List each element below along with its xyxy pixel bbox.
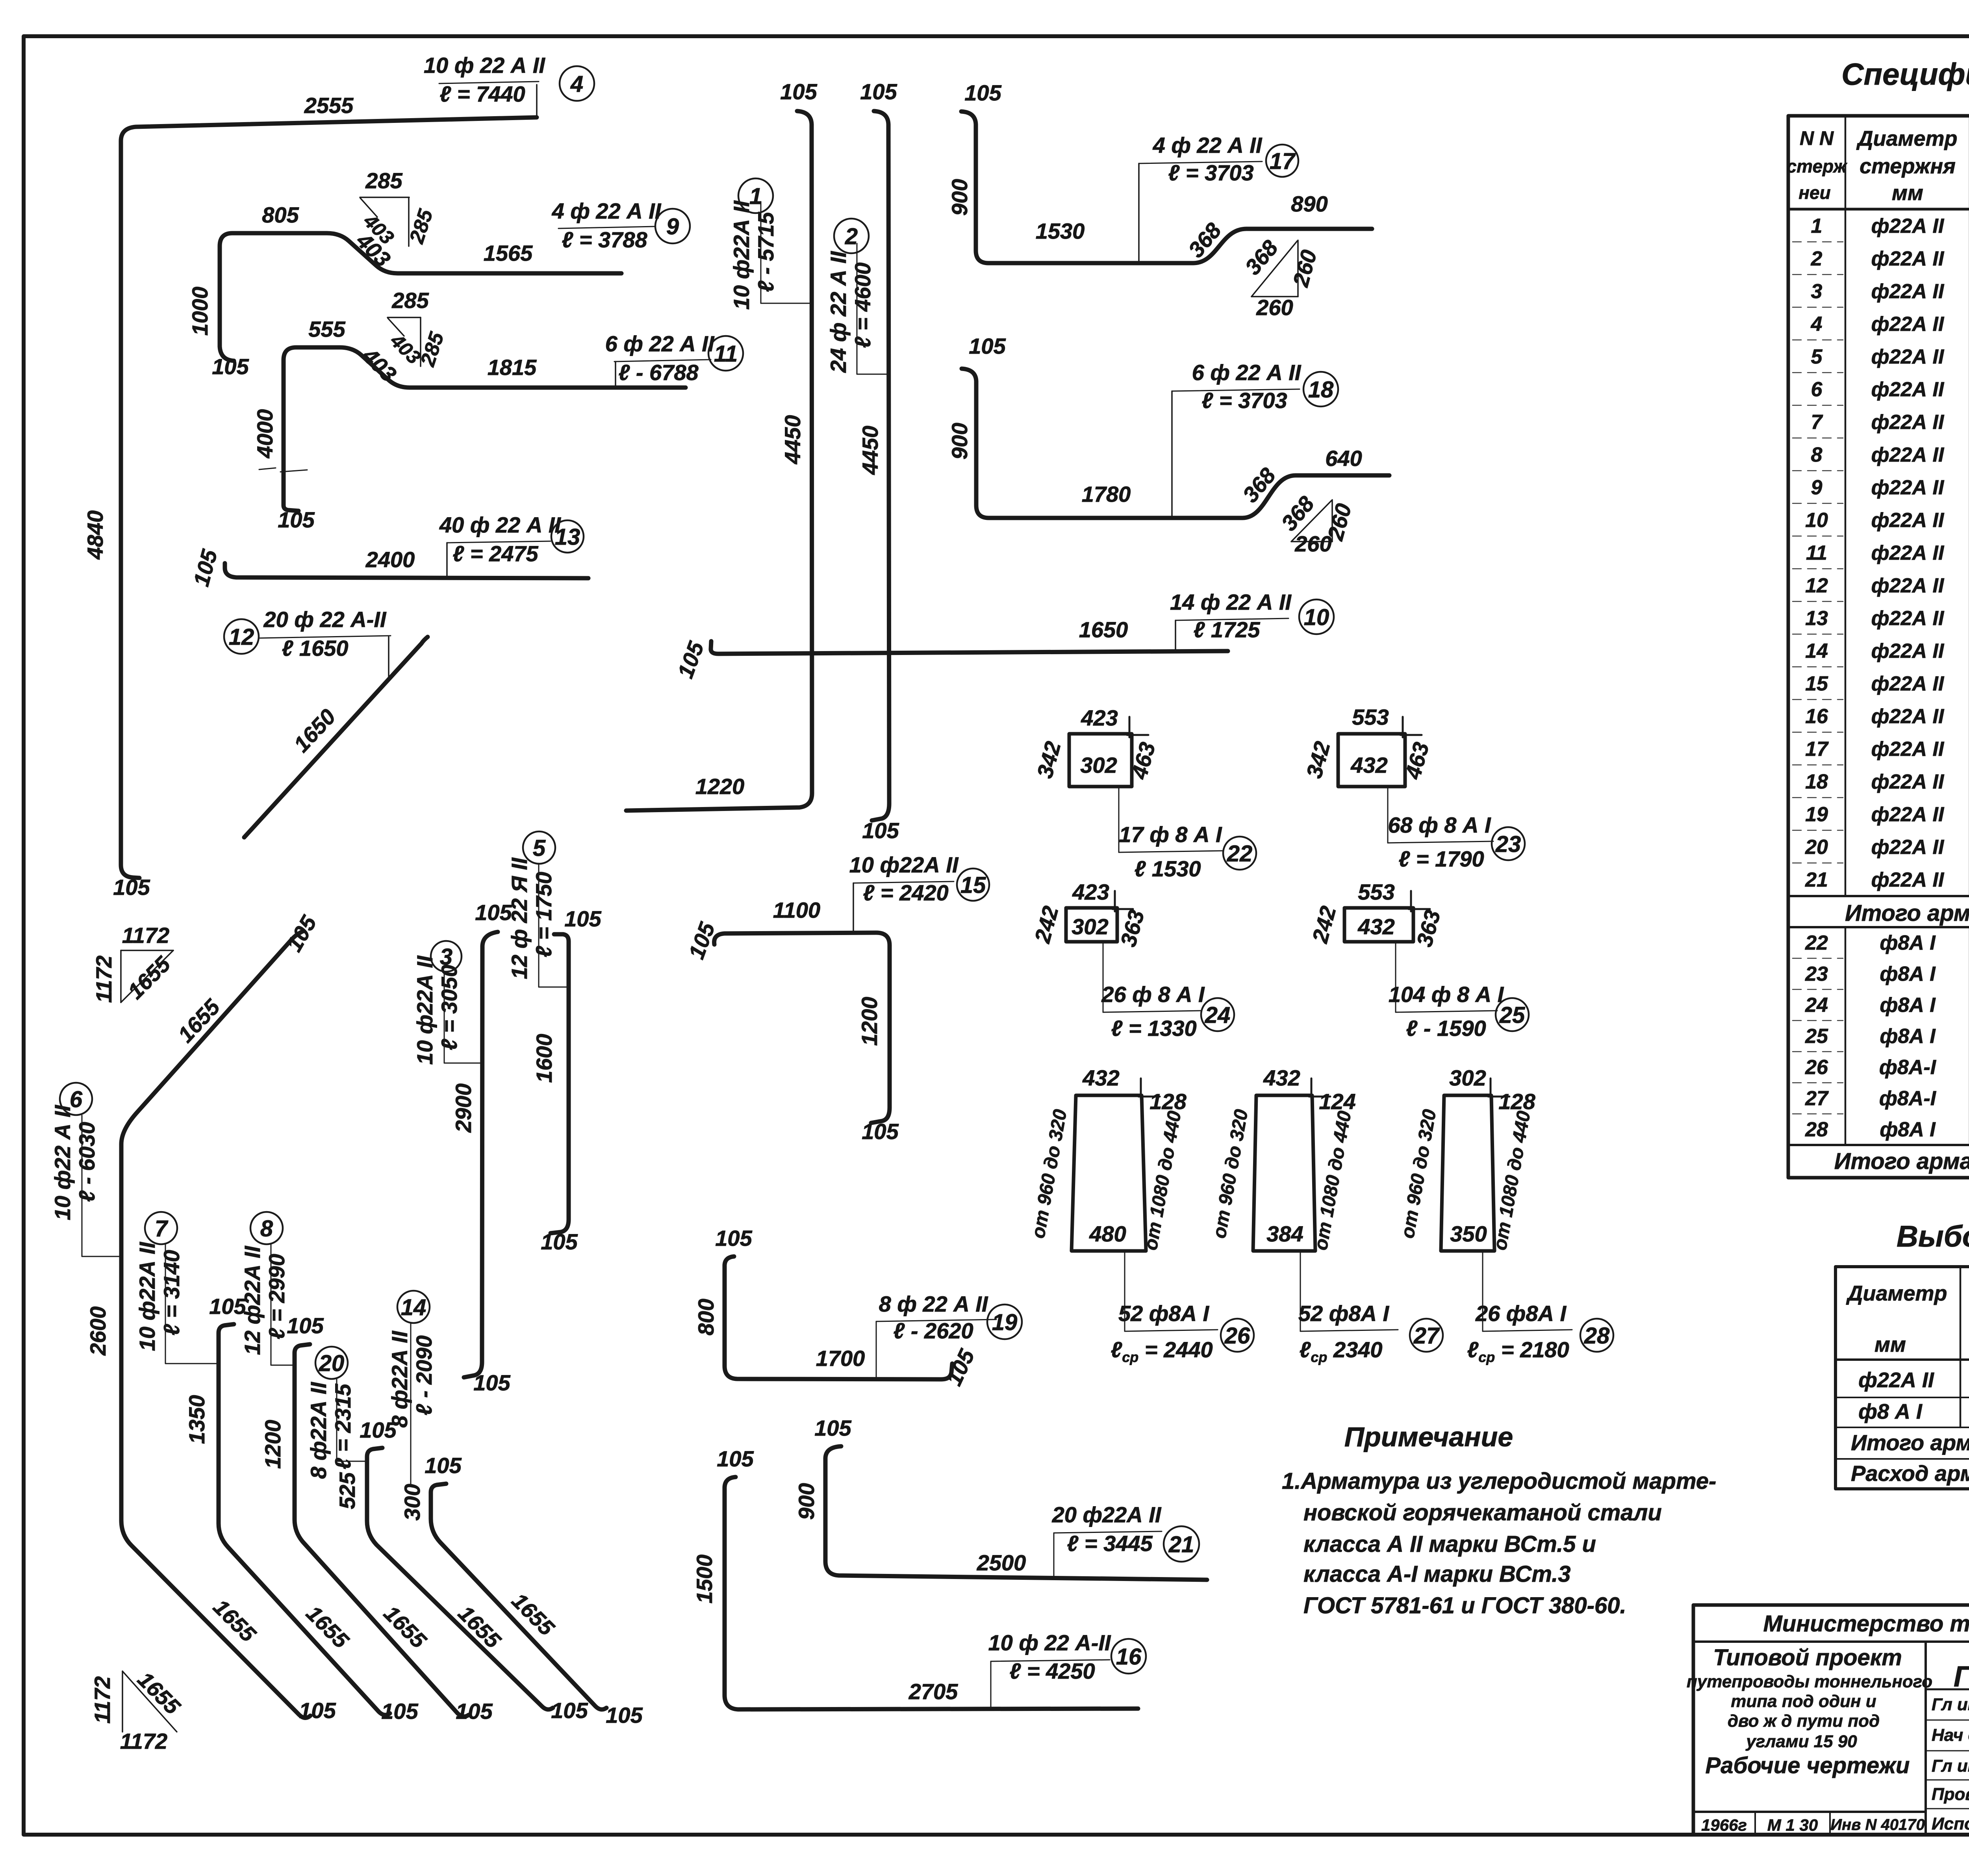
svg-text:Гл инж пр: Гл инж пр <box>1932 1756 1969 1776</box>
svg-text:10 ф 22 А II: 10 ф 22 А II <box>424 53 545 78</box>
svg-text:Итого арматуры: Итого арматуры <box>1851 1430 1969 1455</box>
svg-text:555: 555 <box>308 317 345 341</box>
svg-text:мм: мм <box>1874 1333 1906 1356</box>
svg-text:900: 900 <box>947 423 972 459</box>
bar 18 (6 ф22А II, l=3703) <box>947 334 1389 518</box>
svg-text:ф8А I: ф8А I <box>1880 1025 1936 1048</box>
svg-text:7: 7 <box>1811 411 1823 434</box>
bar 19 (8 ф22А II, l=2620) <box>693 1226 996 1389</box>
svg-text:525: 525 <box>335 1472 360 1509</box>
svg-text:ф22А II: ф22А II <box>1871 509 1945 532</box>
svg-text:мм: мм <box>1892 181 1923 205</box>
svg-text:ф8А I: ф8А I <box>1880 963 1936 985</box>
svg-text:1: 1 <box>1811 215 1823 238</box>
svg-text:1172: 1172 <box>122 923 169 948</box>
svg-text:16: 16 <box>1116 1644 1142 1670</box>
stirrup 28 (26 ф8А I, lср=2180) tall loop 302/350 <box>1397 1065 1572 1365</box>
svg-text:дво ж д пути под: дво ж д пути под <box>1728 1711 1880 1731</box>
svg-text:Итого арматуры Ф 22 А-II: Итого арматуры Ф 22 А-II <box>1845 900 1969 926</box>
svg-text:ℓ - 1590: ℓ - 1590 <box>1406 1016 1486 1041</box>
svg-text:ℓ = 3445: ℓ = 3445 <box>1067 1531 1153 1556</box>
svg-text:Диаметр: Диаметр <box>1846 1282 1947 1305</box>
spec table header <box>1787 126 1969 205</box>
svg-text:6 ф 22 А II: 6 ф 22 А II <box>1192 360 1302 385</box>
svg-text:ф8 А I: ф8 А I <box>1858 1400 1923 1423</box>
svg-text:2705: 2705 <box>908 1679 958 1704</box>
title block frame <box>1693 1605 1969 1835</box>
bend dimension triangle 285/403/285 (bar 11) <box>386 288 449 369</box>
svg-text:ℓ 1650: ℓ 1650 <box>282 636 348 661</box>
bar 13 (40 ф22А II, l=2475) <box>189 512 588 589</box>
svg-text:25: 25 <box>1499 1002 1525 1028</box>
svg-text:ℓ = 4600: ℓ = 4600 <box>850 262 875 348</box>
svg-text:20: 20 <box>319 1351 345 1376</box>
bar 6 (10 ф22А II, l=6030) <box>50 911 336 1723</box>
callout circle 26 <box>1221 1319 1254 1352</box>
stirrup 23 (68 ф8А I, l=1790) rectangle 553x342 <box>1302 705 1493 871</box>
callout circle 23 <box>1492 827 1525 860</box>
svg-text:ф22А II: ф22А II <box>1871 247 1945 270</box>
svg-text:путепроводы тоннельного: путепроводы тоннельного <box>1687 1672 1932 1691</box>
svg-text:ℓ = 3703: ℓ = 3703 <box>1201 388 1287 413</box>
selection table title Выборка арматуры <box>1897 1220 1969 1253</box>
callout circle 17 <box>1266 145 1298 177</box>
bar 1 (10 ф22А II, l=5715) <box>626 79 818 811</box>
svg-text:23: 23 <box>1495 831 1521 857</box>
selection table rows <box>1851 1368 1969 1486</box>
svg-text:ℓ = 3703: ℓ = 3703 <box>1168 160 1253 185</box>
svg-text:ф22А II: ф22А II <box>1871 313 1945 336</box>
svg-text:1100: 1100 <box>773 898 820 922</box>
svg-text:423: 423 <box>1072 880 1109 904</box>
svg-text:1172: 1172 <box>91 956 116 1003</box>
svg-text:15: 15 <box>1805 672 1828 695</box>
svg-text:553: 553 <box>1352 705 1389 729</box>
svg-text:ф22А II: ф22А II <box>1871 215 1945 238</box>
svg-text:10 ф22А II: 10 ф22А II <box>412 955 437 1065</box>
spec table subtotal ф22А-II <box>1845 900 1969 926</box>
svg-text:Гипротрансмост: Гипротрансмост <box>1954 1660 1969 1693</box>
svg-text:10 ф 22 А-II: 10 ф 22 А-II <box>988 1630 1111 1655</box>
svg-text:2500: 2500 <box>977 1550 1026 1575</box>
svg-text:класса А II марки ВСт.5 и: класса А II марки ВСт.5 и <box>1303 1531 1596 1557</box>
svg-text:20: 20 <box>1805 836 1828 859</box>
svg-text:40 ф 22 А II: 40 ф 22 А II <box>439 512 561 537</box>
svg-text:10 ф22А II: 10 ф22А II <box>729 200 754 310</box>
svg-text:Исполнил: Исполнил <box>1932 1814 1969 1833</box>
svg-text:3: 3 <box>1811 280 1823 303</box>
svg-text:неи: неи <box>1798 182 1830 203</box>
svg-text:13: 13 <box>1805 607 1828 630</box>
svg-text:105: 105 <box>715 1226 752 1251</box>
svg-text:1220: 1220 <box>695 774 745 799</box>
svg-text:ℓ = 2475: ℓ = 2475 <box>452 541 538 566</box>
bar 5 (12 ф22А II, l=1750) <box>507 857 602 1254</box>
svg-text:ℓ = 7440: ℓ = 7440 <box>439 82 525 106</box>
svg-text:24: 24 <box>1205 1002 1231 1028</box>
svg-text:10 ф22А II: 10 ф22А II <box>135 1241 159 1351</box>
svg-text:ф22А II: ф22А II <box>1871 378 1945 401</box>
svg-text:ф22А II: ф22А II <box>1871 836 1945 859</box>
svg-text:ф22А II: ф22А II <box>1871 345 1945 368</box>
svg-text:432: 432 <box>1350 753 1387 777</box>
svg-text:ф8А-I: ф8А-I <box>1879 1056 1937 1079</box>
break marks on bar 11 vertical <box>259 468 276 469</box>
svg-text:ф22А II: ф22А II <box>1871 868 1945 891</box>
svg-text:ℓ = 1750: ℓ = 1750 <box>531 872 556 957</box>
svg-text:1172: 1172 <box>120 1729 167 1754</box>
svg-text:Выборка арматуры: Выборка арматуры <box>1897 1220 1969 1253</box>
svg-text:ф8А I: ф8А I <box>1880 1118 1936 1141</box>
svg-text:14: 14 <box>1805 640 1828 662</box>
svg-text:класса А-I марки ВСт.3: класса А-I марки ВСт.3 <box>1303 1561 1571 1587</box>
notes heading Примечание <box>1344 1421 1513 1452</box>
svg-text:1780: 1780 <box>1082 482 1131 507</box>
svg-text:302: 302 <box>1449 1065 1486 1090</box>
svg-text:21: 21 <box>1805 868 1828 891</box>
svg-text:105: 105 <box>780 79 817 104</box>
svg-text:10: 10 <box>1805 509 1828 532</box>
svg-text:1600: 1600 <box>532 1034 556 1083</box>
slope dimension triangle 368/260/260 (bar 17) <box>1240 235 1322 320</box>
svg-text:Диаметр: Диаметр <box>1856 127 1958 150</box>
stirrup 27 (52 ф8А I, lср=2340) tall loop 432/384 <box>1209 1065 1398 1365</box>
svg-text:13: 13 <box>555 524 580 550</box>
svg-text:Спецификация арматуры: Спецификация арматуры <box>1841 57 1969 91</box>
svg-text:8: 8 <box>260 1216 273 1241</box>
svg-text:Гл инж ПМ: Гл инж ПМ <box>1932 1695 1969 1714</box>
svg-text:1966г: 1966г <box>1701 1816 1747 1834</box>
svg-text:423: 423 <box>1081 705 1118 730</box>
svg-text:ф22А II: ф22А II <box>1871 738 1945 761</box>
slope dimension triangle 368/260/260 (bar 18) <box>1276 491 1356 556</box>
svg-text:ф22А II: ф22А II <box>1871 574 1945 597</box>
svg-text:26 ф 8 А I: 26 ф 8 А I <box>1101 982 1205 1007</box>
svg-text:1815: 1815 <box>488 355 537 380</box>
svg-text:ф22А II: ф22А II <box>1871 705 1945 728</box>
spec table rows 1-21 <box>1805 215 1969 891</box>
svg-text:1500: 1500 <box>692 1555 717 1604</box>
svg-text:5: 5 <box>533 835 546 861</box>
svg-text:12: 12 <box>229 624 254 650</box>
bar 2 (24 ф22А II, l=4600) <box>826 79 899 843</box>
svg-text:68 ф 8 А I: 68 ф 8 А I <box>1388 813 1491 837</box>
svg-text:350: 350 <box>1450 1221 1487 1246</box>
svg-text:Расход арматуры: Расход арматуры <box>1851 1461 1969 1486</box>
svg-text:6: 6 <box>70 1087 83 1112</box>
callout circle 19 <box>987 1304 1022 1339</box>
callout circle 16 <box>1111 1639 1146 1674</box>
svg-text:22: 22 <box>1227 841 1253 867</box>
svg-text:26 ф8А I: 26 ф8А I <box>1475 1301 1567 1326</box>
callout circle 22 <box>1223 837 1256 870</box>
svg-text:19: 19 <box>992 1310 1018 1335</box>
svg-text:800: 800 <box>693 1299 718 1335</box>
svg-text:26: 26 <box>1224 1323 1250 1349</box>
svg-text:52 ф8А I: 52 ф8А I <box>1298 1301 1390 1326</box>
svg-text:24: 24 <box>1805 994 1828 1017</box>
svg-text:ℓ - 6788: ℓ - 6788 <box>618 360 699 385</box>
spec table title Спецификация арматуры <box>1841 57 1969 91</box>
svg-text:384: 384 <box>1266 1221 1303 1246</box>
bar 10 (14 ф22А II, l=1725) <box>673 590 1292 681</box>
bar 12 (20 ф22А-II, l=1650) <box>244 607 428 837</box>
svg-text:260: 260 <box>1294 531 1331 556</box>
svg-text:1.Арматура из углеродистой мар: 1.Арматура из углеродистой марте- <box>1282 1468 1716 1494</box>
svg-text:805: 805 <box>262 202 299 227</box>
svg-text:432: 432 <box>1263 1065 1300 1090</box>
svg-text:стержня: стержня <box>1860 154 1956 178</box>
svg-text:ф22А II: ф22А II <box>1871 803 1945 826</box>
svg-text:ℓ = 3788: ℓ = 3788 <box>562 227 647 252</box>
svg-text:105: 105 <box>473 1370 510 1395</box>
title block: ministry header <box>1763 1611 1969 1637</box>
svg-text:ℓ = 3140: ℓ = 3140 <box>159 1250 184 1335</box>
svg-text:ф8А I: ф8А I <box>1880 994 1936 1017</box>
spec table subtotal ф8А I <box>1834 1149 1969 1174</box>
svg-text:ф8А-I: ф8А-I <box>1879 1087 1937 1110</box>
svg-text:ф22А II: ф22А II <box>1858 1368 1934 1392</box>
stirrup 26 (52 ф8А I, lср=2440) tall loop 432/480 <box>1028 1065 1218 1365</box>
svg-text:7: 7 <box>155 1216 169 1241</box>
svg-text:1000: 1000 <box>187 287 212 336</box>
svg-text:ℓ - 5715: ℓ - 5715 <box>753 212 778 292</box>
svg-text:285: 285 <box>365 168 402 193</box>
callout circle 2 <box>834 219 869 253</box>
callout circle 5 <box>523 831 555 864</box>
callout circle 27 <box>1410 1319 1443 1352</box>
svg-text:105: 105 <box>964 80 1001 105</box>
svg-text:10 ф22 А II: 10 ф22 А II <box>50 1104 75 1220</box>
callout circle 13 <box>551 520 584 553</box>
svg-text:25: 25 <box>1805 1025 1828 1048</box>
callout circle 25 <box>1496 998 1529 1031</box>
svg-text:ℓ = 3050: ℓ = 3050 <box>437 965 462 1050</box>
svg-text:ГОСТ 5781-61 и ГОСТ 380-60.: ГОСТ 5781-61 и ГОСТ 380-60. <box>1303 1593 1626 1618</box>
svg-text:17 ф 8 А I: 17 ф 8 А I <box>1119 822 1222 847</box>
svg-text:Министерство транспортного с: Министерство транспортного строительства… <box>1763 1611 1969 1637</box>
svg-text:типа под один и: типа под один и <box>1731 1692 1876 1711</box>
svg-text:105: 105 <box>551 1698 588 1723</box>
svg-text:ф8А I: ф8А I <box>1880 932 1936 954</box>
svg-text:105: 105 <box>299 1698 336 1723</box>
svg-text:Типовой проект: Типовой проект <box>1713 1645 1902 1670</box>
bar 16 (10 ф22А-II, l=4250) <box>692 1446 1138 1709</box>
svg-text:4: 4 <box>570 71 583 97</box>
svg-text:углами 15 90: углами 15 90 <box>1745 1732 1857 1751</box>
callout circle 10 <box>1299 599 1334 634</box>
svg-text:5: 5 <box>1811 345 1823 368</box>
bar 15 (10 ф22А II, l=2420) <box>684 852 959 1144</box>
svg-text:900: 900 <box>794 1483 819 1520</box>
svg-text:4 ф 22 А II: 4 ф 22 А II <box>1153 133 1263 158</box>
svg-text:105: 105 <box>969 334 1006 358</box>
svg-text:2600: 2600 <box>85 1306 110 1356</box>
svg-text:1565: 1565 <box>484 241 533 265</box>
callout circle 24 <box>1201 998 1234 1031</box>
svg-text:105: 105 <box>456 1699 493 1724</box>
svg-text:1172: 1172 <box>90 1676 115 1724</box>
svg-text:105: 105 <box>212 354 249 379</box>
svg-text:4: 4 <box>1811 313 1823 336</box>
title block: bottom-left cells <box>1701 1816 1925 1834</box>
svg-text:1: 1 <box>749 184 762 209</box>
svg-text:6: 6 <box>1811 378 1823 401</box>
svg-text:105: 105 <box>113 875 150 900</box>
callout circle 3 <box>431 941 462 972</box>
svg-text:432: 432 <box>1082 1065 1119 1090</box>
callout circle 6 <box>60 1083 92 1115</box>
svg-text:Нач отд: Нач отд <box>1932 1726 1969 1745</box>
callout circle 28 <box>1580 1319 1613 1352</box>
bar 21 (20 ф22А II, l=3445) <box>794 1416 1207 1580</box>
svg-text:ℓ = 2420: ℓ = 2420 <box>863 880 948 905</box>
bend dimension triangle 285/403/285 (bar 9) <box>359 168 438 249</box>
svg-text:9: 9 <box>1811 476 1823 499</box>
svg-text:302: 302 <box>1072 914 1108 939</box>
bar 8 (12 ф22А II, l=2990) <box>240 1244 493 1724</box>
bend dimension triangle 1172/1655/1172 (upper) <box>91 923 175 1004</box>
svg-text:20 ф 22 А-II: 20 ф 22 А-II <box>263 607 386 632</box>
svg-text:стерж: стерж <box>1787 156 1848 176</box>
title block: role labels <box>1932 1695 1969 1833</box>
svg-text:Инв N 40170: Инв N 40170 <box>1830 1816 1925 1833</box>
svg-text:ф22А II: ф22А II <box>1871 476 1945 499</box>
svg-text:105: 105 <box>717 1446 754 1471</box>
svg-text:105: 105 <box>287 1313 324 1338</box>
svg-text:ф22А II: ф22А II <box>1871 640 1945 662</box>
svg-text:105: 105 <box>475 900 512 925</box>
svg-text:26: 26 <box>1805 1056 1828 1079</box>
svg-text:11: 11 <box>714 341 738 367</box>
svg-text:ℓ 1725: ℓ 1725 <box>1193 617 1260 642</box>
svg-text:6 ф 22 А II: 6 ф 22 А II <box>605 331 715 356</box>
svg-text:14: 14 <box>401 1295 426 1320</box>
svg-text:12: 12 <box>1805 574 1828 597</box>
svg-text:480: 480 <box>1089 1221 1126 1246</box>
svg-text:1200: 1200 <box>260 1420 285 1469</box>
callout circle 11 <box>708 336 743 371</box>
svg-text:19: 19 <box>1805 803 1828 826</box>
svg-text:105: 105 <box>862 818 899 843</box>
stirrup 25 (104 ф8А I, l=1590) rectangle 553x242 <box>1307 880 1504 1041</box>
svg-text:890: 890 <box>1291 191 1327 216</box>
svg-text:105: 105 <box>814 1416 851 1440</box>
callout circle 21 <box>1164 1526 1199 1562</box>
svg-text:N N: N N <box>1800 127 1834 149</box>
svg-text:105: 105 <box>381 1699 418 1724</box>
svg-text:ф22А II: ф22А II <box>1871 443 1945 466</box>
svg-text:ф22А II: ф22А II <box>1871 542 1945 564</box>
bend dimension triangle 1172/1655/1172 (lower) <box>90 1667 185 1754</box>
svg-text:105: 105 <box>425 1453 462 1478</box>
title block: org names <box>1954 1641 1969 1693</box>
spec table grid <box>1788 116 1969 1178</box>
svg-text:10 ф22А II: 10 ф22А II <box>849 852 959 877</box>
svg-text:1200: 1200 <box>857 997 882 1046</box>
svg-text:16: 16 <box>1805 705 1828 728</box>
bar 4 (10 ф22А II, l=7440) <box>83 53 545 900</box>
svg-text:105: 105 <box>541 1229 578 1254</box>
svg-text:3: 3 <box>440 944 452 970</box>
svg-text:ф22А II: ф22А II <box>1871 672 1945 695</box>
callout circle 15 <box>957 868 989 901</box>
bar 9 (4 ф22А II, l=3788) <box>187 202 621 379</box>
svg-text:Проверил: Проверил <box>1932 1785 1969 1804</box>
svg-text:18: 18 <box>1805 770 1828 793</box>
svg-text:ф22А II: ф22А II <box>1871 280 1945 303</box>
svg-text:1530: 1530 <box>1036 219 1085 243</box>
svg-text:11: 11 <box>1806 542 1827 564</box>
svg-text:ℓ - 6030: ℓ - 6030 <box>74 1122 99 1202</box>
svg-text:2: 2 <box>845 224 858 249</box>
svg-text:28: 28 <box>1584 1323 1610 1349</box>
svg-text:10: 10 <box>1304 605 1329 630</box>
svg-text:23: 23 <box>1805 963 1828 985</box>
svg-text:1350: 1350 <box>184 1395 209 1444</box>
spec table rows 22-28 <box>1805 932 1969 1143</box>
svg-text:ф22А II: ф22А II <box>1871 770 1945 793</box>
svg-text:4840: 4840 <box>83 510 108 560</box>
svg-text:М 1 30: М 1 30 <box>1767 1816 1818 1834</box>
svg-text:52 ф8А I: 52 ф8А I <box>1118 1301 1210 1326</box>
svg-text:300: 300 <box>400 1484 425 1520</box>
svg-text:ℓ = 4250: ℓ = 4250 <box>1009 1659 1095 1683</box>
label 4ф22А II l=3788 <box>552 199 662 252</box>
svg-text:22: 22 <box>1805 932 1828 954</box>
bar 20 (8 ф22А II, l=2315) <box>306 1378 588 1723</box>
svg-text:ф22А II: ф22А II <box>1871 607 1945 630</box>
svg-text:8 ф 22 А II: 8 ф 22 А II <box>879 1291 988 1316</box>
svg-text:20 ф22А II: 20 ф22А II <box>1052 1502 1162 1527</box>
svg-text:640: 640 <box>1325 446 1362 471</box>
svg-text:553: 553 <box>1358 880 1394 904</box>
svg-text:Итого арматуры ф 8 А I: Итого арматуры ф 8 А I <box>1834 1149 1969 1174</box>
svg-text:ℓ = 1790: ℓ = 1790 <box>1398 846 1484 871</box>
svg-text:104 ф 8 А I: 104 ф 8 А I <box>1389 982 1504 1007</box>
callout circle 12 <box>224 619 259 654</box>
notes text <box>1282 1468 1716 1618</box>
svg-text:1700: 1700 <box>816 1346 865 1371</box>
callout circle 8 <box>250 1212 283 1244</box>
svg-text:ℓ 1530: ℓ 1530 <box>1134 856 1201 881</box>
svg-text:105: 105 <box>860 79 897 104</box>
selection table header <box>1846 1279 1969 1356</box>
label 6ф22А II l=6788 <box>605 331 715 387</box>
svg-text:4450: 4450 <box>780 415 805 465</box>
svg-text:ℓ - 2620: ℓ - 2620 <box>893 1318 973 1343</box>
svg-text:105: 105 <box>862 1119 899 1144</box>
svg-text:21: 21 <box>1168 1532 1194 1557</box>
svg-text:2400: 2400 <box>365 547 415 572</box>
svg-text:8 ф22А II: 8 ф22А II <box>387 1330 412 1428</box>
svg-text:ℓ = 1330: ℓ = 1330 <box>1111 1016 1196 1041</box>
svg-text:8 ф22А II: 8 ф22А II <box>306 1382 331 1479</box>
bar 11 (6 ф22А II, l=6788) <box>252 317 686 532</box>
svg-text:432: 432 <box>1357 914 1394 939</box>
svg-text:28: 28 <box>1805 1118 1828 1141</box>
svg-text:18: 18 <box>1308 377 1334 403</box>
svg-text:24 ф 22 А II: 24 ф 22 А II <box>826 251 851 373</box>
bar 14 (8 ф22А II, l=2090) <box>387 1323 643 1728</box>
bar 7 (10 ф22А II, l=3140) <box>135 1241 419 1724</box>
svg-text:9: 9 <box>666 214 679 239</box>
stirrup 22 (17 ф8А I, l=1530) rectangle 423x342 <box>1032 705 1223 881</box>
svg-text:12 ф22А II: 12 ф22А II <box>240 1245 265 1355</box>
selection table grid <box>1836 1267 1969 1489</box>
svg-text:105: 105 <box>606 1703 643 1728</box>
callout circle 1 <box>738 178 773 213</box>
